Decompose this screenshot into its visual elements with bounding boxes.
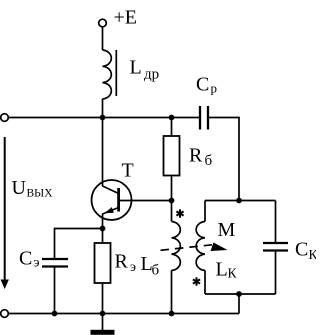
wire tank bottom — [205, 293, 276, 295]
node Re bottom — [100, 311, 106, 317]
svg-text:C: C — [295, 239, 308, 261]
svg-text:б: б — [205, 153, 213, 169]
svg-text:р: р — [211, 81, 218, 96]
svg-text:ВЫХ: ВЫХ — [27, 188, 54, 200]
node tank bottom — [236, 291, 242, 297]
svg-text:э: э — [34, 256, 40, 271]
emitter lead — [103, 208, 119, 215]
wire tank bottom to ground rail — [238, 294, 240, 314]
winding-start mark for Lk — [193, 277, 200, 285]
inductor Lk — [204, 201, 206, 222]
winding-start mark for Lb — [176, 209, 183, 217]
resistor Rb — [171, 118, 173, 137]
terminal +E — [99, 19, 107, 27]
node tank top — [236, 198, 242, 204]
wire emitter to Ce — [55, 229, 103, 260]
svg-text:L: L — [216, 259, 228, 281]
svg-text:C: C — [196, 74, 209, 96]
terminal output bottom — [1, 310, 9, 318]
svg-text:К: К — [309, 247, 317, 262]
wire bottom rail — [8, 313, 239, 315]
svg-text:C: C — [19, 248, 32, 270]
emitter arrow — [105, 207, 114, 213]
svg-text:б: б — [152, 263, 160, 279]
node base — [169, 198, 175, 204]
ground — [102, 314, 104, 331]
wire Cp to right rail — [208, 118, 239, 201]
wire top horizontal — [8, 117, 200, 119]
inductor L_dr (choke) — [103, 50, 112, 99]
node emitter — [100, 226, 106, 232]
node Ce bottom — [52, 311, 58, 317]
node at collector rail — [100, 115, 106, 121]
svg-text:R: R — [189, 145, 203, 167]
coupling M dashed arrow — [161, 245, 213, 251]
inductor Lb — [171, 201, 173, 222]
svg-text:др: др — [144, 67, 159, 83]
collector lead — [103, 186, 119, 194]
wire Ce down — [54, 267, 56, 314]
capacitor Ck — [275, 201, 277, 244]
capacitor Cp — [199, 106, 201, 130]
node at Rb top — [169, 115, 175, 121]
svg-text:L: L — [130, 57, 142, 79]
wire base — [119, 200, 172, 202]
resistor Re — [95, 243, 111, 283]
svg-text:э: э — [130, 260, 136, 275]
core line of L_dr — [115, 50, 117, 96]
transistor base bar — [117, 188, 120, 212]
wire emitter down — [102, 214, 104, 244]
svg-text:M: M — [218, 219, 236, 241]
wire from +E to choke — [102, 27, 104, 50]
wire main vertical (choke to collector) — [102, 99, 104, 186]
svg-text:U: U — [12, 177, 27, 199]
capacitor Ce — [42, 258, 68, 260]
svg-text:T: T — [122, 160, 134, 182]
terminal output top — [1, 114, 9, 122]
node Lb bottom — [169, 311, 175, 317]
svg-text:R: R — [115, 251, 129, 273]
svg-text:+E: +E — [114, 7, 138, 29]
wire tank top — [205, 200, 276, 202]
svg-text:К: К — [228, 266, 238, 281]
U_out arrow — [4, 137, 6, 280]
transistor T circle — [92, 180, 132, 220]
